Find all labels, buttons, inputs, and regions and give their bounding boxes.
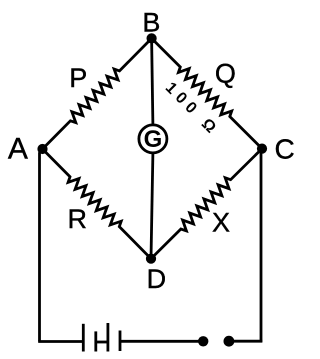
svg-text:100 Ω: 100 Ω xyxy=(162,79,223,140)
resistor X xyxy=(151,149,262,259)
wire A down to bottom xyxy=(40,149,43,342)
wire battery to key xyxy=(119,340,199,343)
resistor P xyxy=(43,38,152,149)
wire B to galvanometer xyxy=(152,38,153,125)
svg-text:X: X xyxy=(212,207,230,237)
svg-text:R: R xyxy=(67,204,87,234)
battery cell 1 long plate xyxy=(82,324,85,352)
svg-text:B: B xyxy=(142,8,160,38)
svg-text:C: C xyxy=(274,134,294,165)
battery cell 1 short plate xyxy=(94,331,97,351)
svg-text:P: P xyxy=(69,63,87,93)
galvanometer circle xyxy=(139,125,167,153)
wire galvanometer to D xyxy=(151,153,153,259)
wire C down to bottom xyxy=(261,149,262,343)
resistor Q xyxy=(152,38,262,148)
battery inter-cell connector xyxy=(96,341,108,344)
svg-text:A: A xyxy=(8,132,28,165)
key contact dot right xyxy=(224,336,235,347)
node D xyxy=(146,254,156,264)
battery cell 2 long plate xyxy=(107,323,110,352)
svg-text:G: G xyxy=(144,126,163,153)
svg-text:D: D xyxy=(147,264,167,294)
svg-text:Q: Q xyxy=(215,58,236,88)
wire bottom-left to battery xyxy=(38,340,83,343)
key contact dot left xyxy=(198,336,208,346)
resistor R xyxy=(43,149,152,259)
wire key to bottom-right xyxy=(234,340,263,343)
node A xyxy=(37,144,47,154)
battery cell 2 short plate xyxy=(119,331,122,352)
node B xyxy=(147,33,157,43)
node C xyxy=(257,144,267,154)
